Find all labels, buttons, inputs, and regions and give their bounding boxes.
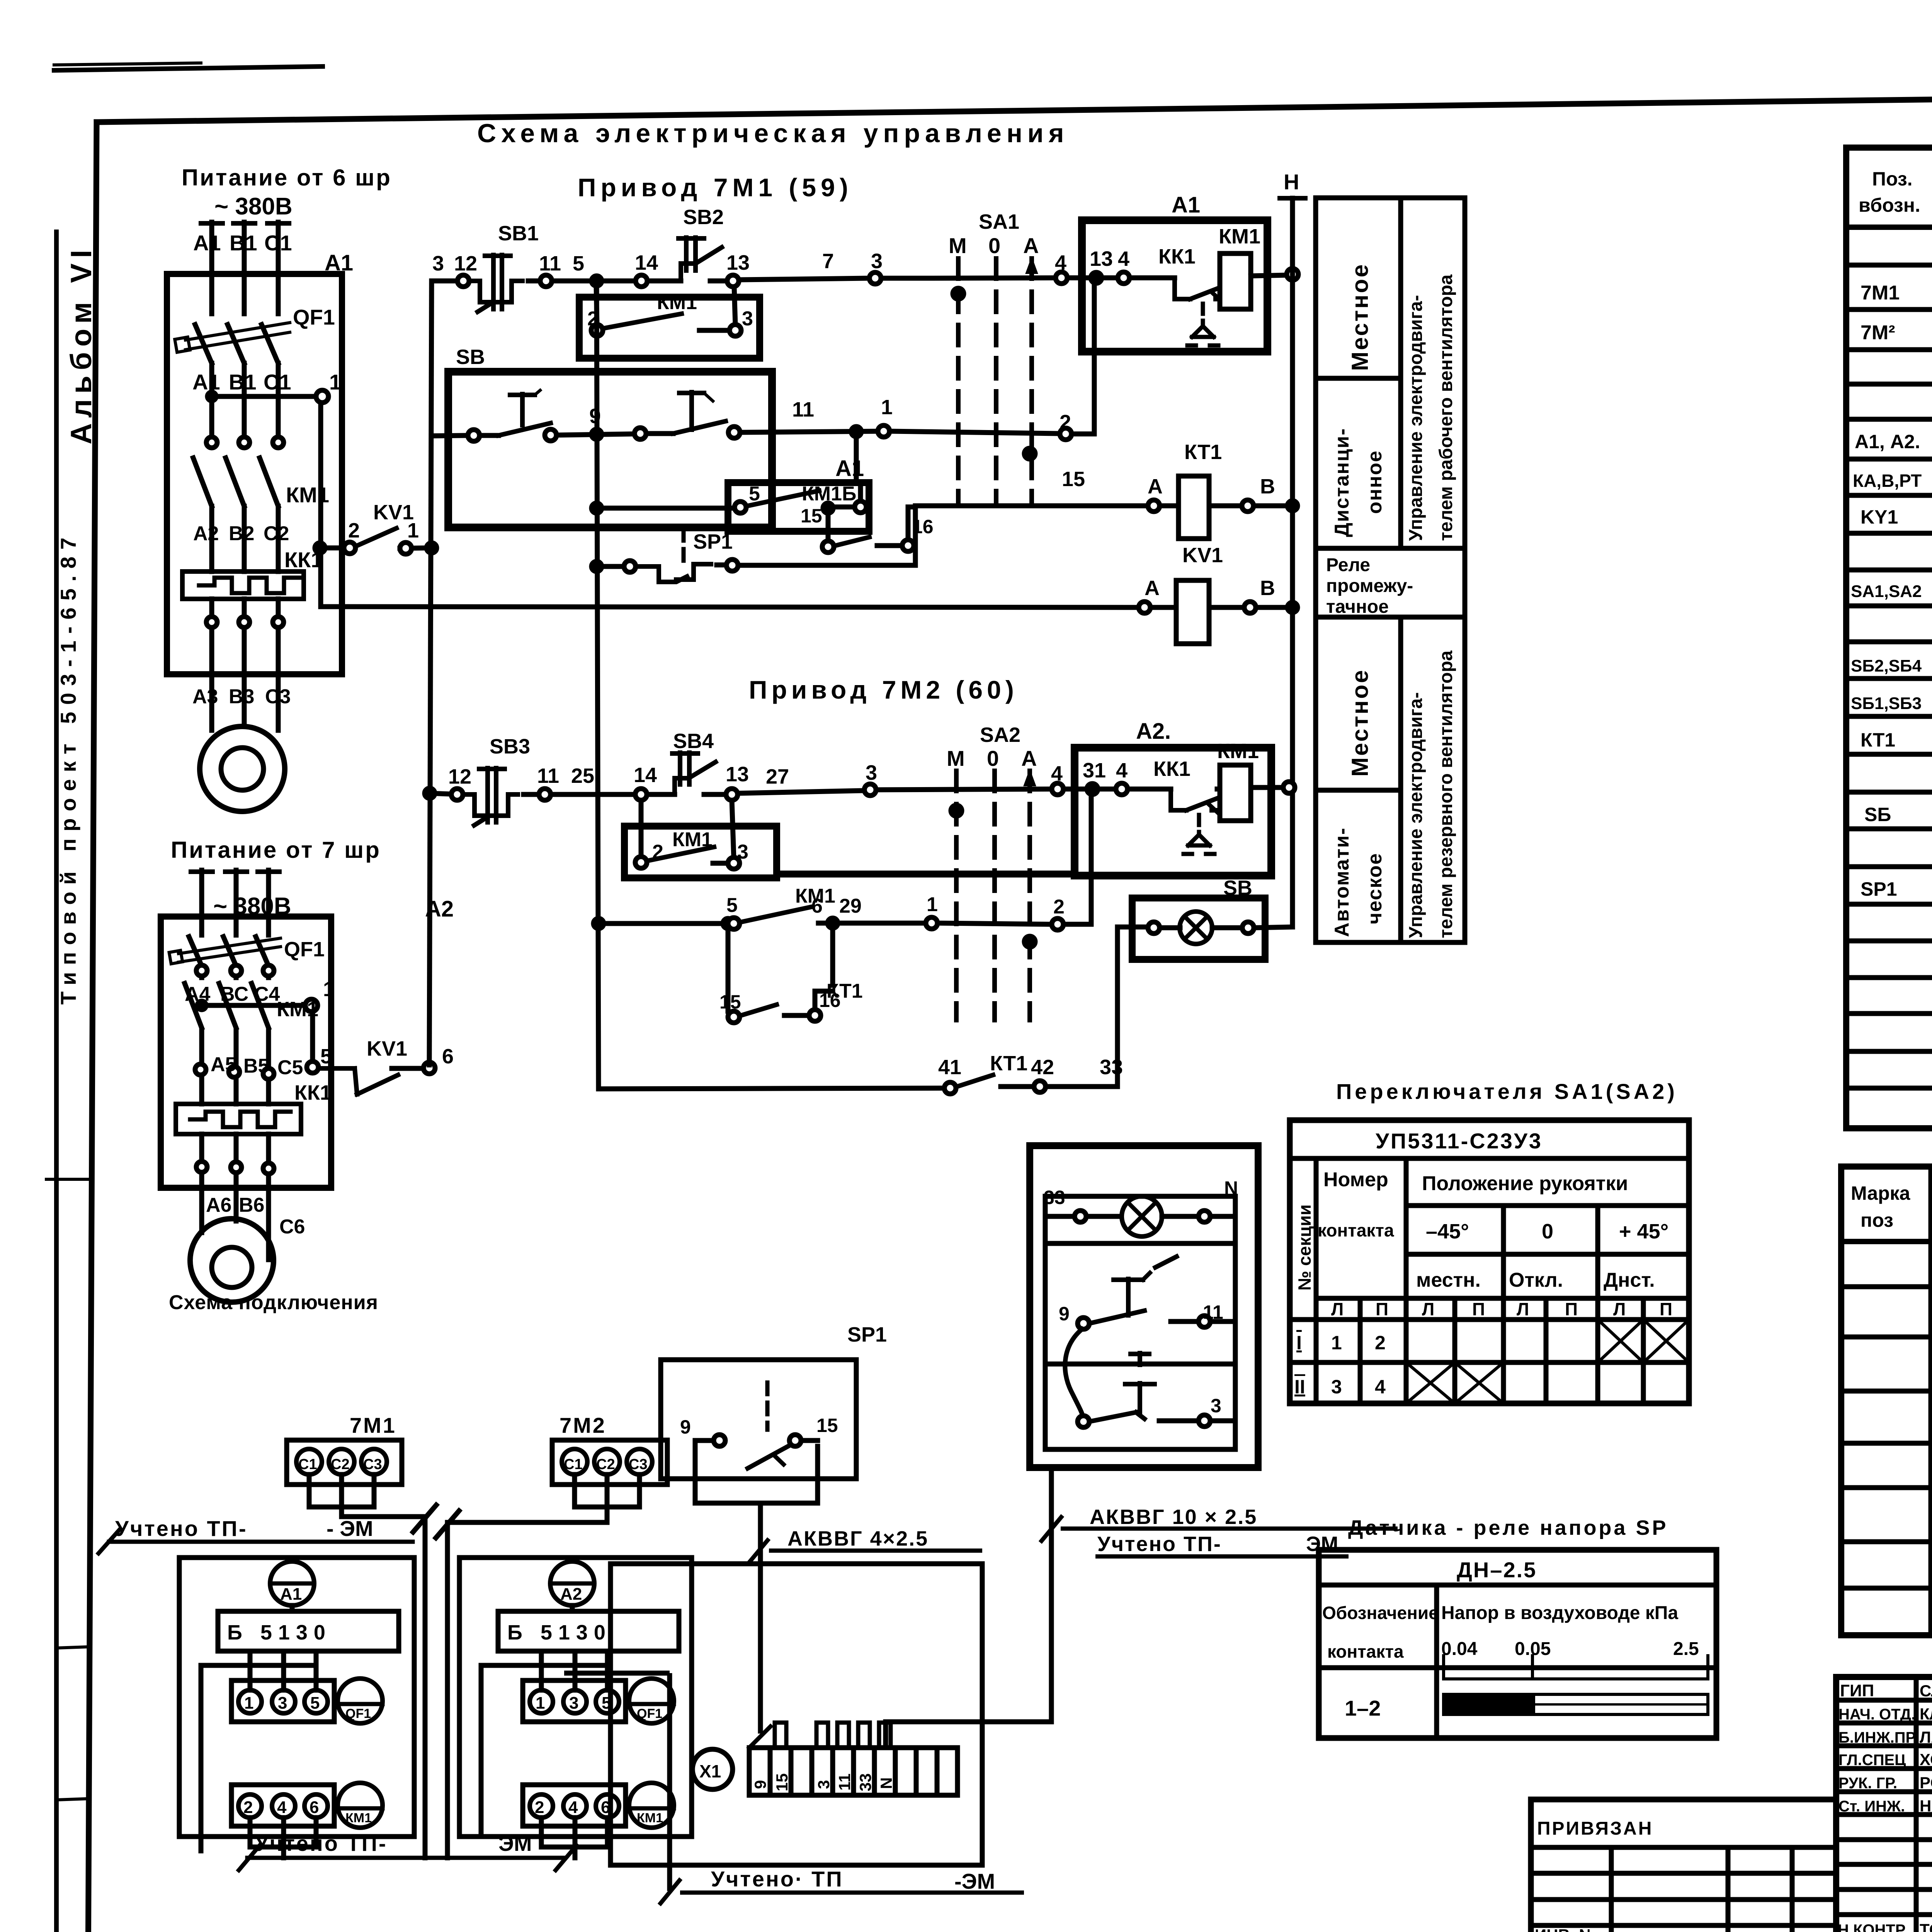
svg-text:4: 4 xyxy=(1051,762,1063,785)
svg-text:П: П xyxy=(1376,1299,1388,1319)
node 12 xyxy=(457,275,469,287)
node 1 drop wire A2 xyxy=(310,1012,315,1061)
svg-text:А2: А2 xyxy=(193,522,219,545)
svg-text:3: 3 xyxy=(871,250,883,273)
svg-text:КТ1: КТ1 xyxy=(827,980,863,1002)
border left xyxy=(88,122,97,1932)
svg-text:7М1: 7М1 xyxy=(1861,282,1900,304)
pushbutton SB3 xyxy=(463,794,493,816)
x1 enclosure xyxy=(611,1564,982,1865)
A2 boundary extension xyxy=(777,871,1075,878)
junction 15 riser left xyxy=(723,918,733,929)
svg-text:ХОМЯКОВ: ХОМЯКОВ xyxy=(1920,1750,1932,1769)
wires below 246-2 xyxy=(539,1818,544,1847)
svg-text:–45°: –45° xyxy=(1426,1220,1469,1243)
svg-text:телем резервного вентилятора: телем резервного вентилятора xyxy=(1436,650,1456,938)
svg-text:6: 6 xyxy=(442,1045,454,1068)
svg-text:3: 3 xyxy=(737,841,748,863)
svg-text:НАЧ. ОТД.: НАЧ. ОТД. xyxy=(1838,1706,1915,1723)
junction before node1 xyxy=(851,427,861,437)
KM1 circle 2 xyxy=(629,1783,674,1828)
svg-text:9: 9 xyxy=(751,1780,769,1789)
KM1 coil drive1 xyxy=(1220,253,1251,309)
KT1 latch contact drive1 xyxy=(822,541,834,553)
svg-text:SА1,SА2: SА1,SА2 xyxy=(1851,582,1922,601)
row 2 drive 2 from bus2 xyxy=(594,918,604,929)
svg-text:SВ1: SВ1 xyxy=(498,222,539,245)
svg-text:SВ: SВ xyxy=(1223,876,1252,900)
cable riser 2 xyxy=(445,1522,450,1858)
svg-text:7М1: 7М1 xyxy=(350,1413,396,1437)
svg-text:4: 4 xyxy=(1118,247,1129,270)
svg-text:SВ3: SВ3 xyxy=(490,735,530,758)
svg-text:КМ1Б: КМ1Б xyxy=(802,483,856,505)
svg-text:КК1: КК1 xyxy=(1158,245,1196,268)
SA2 dashed 0 line xyxy=(992,771,997,1020)
node 5 d2 xyxy=(728,918,740,929)
svg-text:С6: С6 xyxy=(279,1216,305,1238)
svg-text:телем рабочего вентилятора: телем рабочего вентилятора xyxy=(1436,274,1456,541)
svg-text:Питание от 7 шр: Питание от 7 шр xyxy=(171,837,381,863)
box A2 control xyxy=(1075,748,1271,876)
svg-text:13: 13 xyxy=(1090,247,1113,270)
KK1 test stem d2 xyxy=(1197,815,1201,835)
svg-text:4: 4 xyxy=(568,1798,578,1817)
node 3 aux d2 xyxy=(728,857,740,869)
phase mid circles A5 B5 C5 xyxy=(195,1064,206,1075)
svg-text:С3: С3 xyxy=(629,1456,648,1473)
svg-text:Х1: Х1 xyxy=(699,1761,721,1781)
sb conn inner box xyxy=(1045,1196,1235,1449)
fold mark 3 xyxy=(56,1799,88,1800)
svg-text:1: 1 xyxy=(407,519,419,542)
svg-text:Учтено ТП-: Учтено ТП- xyxy=(115,1516,248,1541)
wire to SA2 xyxy=(876,789,1052,790)
svg-text:3: 3 xyxy=(569,1694,578,1713)
svg-text:3: 3 xyxy=(278,1694,287,1713)
svg-text:контакта: контакта xyxy=(1327,1641,1404,1662)
terminals 246 box 2 xyxy=(523,1785,626,1826)
svg-text:Питание от 6 шр: Питание от 6 шр xyxy=(182,165,392,190)
svg-text:7: 7 xyxy=(822,250,834,273)
svg-text:12: 12 xyxy=(454,252,477,275)
KV1 contact row feeder1 xyxy=(315,543,325,553)
svg-text:QF1: QF1 xyxy=(637,1706,662,1721)
svg-text:Альбом VI: Альбом VI xyxy=(65,245,98,444)
svg-text:Л: Л xyxy=(1613,1299,1626,1319)
sb left link curve xyxy=(1065,1329,1083,1416)
svg-text:6: 6 xyxy=(811,895,823,917)
svg-text:А1: А1 xyxy=(325,250,353,276)
lamp HL xyxy=(1180,912,1212,944)
svg-text:QF1: QF1 xyxy=(345,1706,371,1721)
riser KM1B to row2 xyxy=(854,437,859,483)
svg-text:Ст. ИНЖ.: Ст. ИНЖ. xyxy=(1838,1798,1905,1815)
svg-text:KY1: KY1 xyxy=(1861,506,1898,528)
parts table frame xyxy=(1846,148,1932,1128)
svg-text:QF1: QF1 xyxy=(293,305,335,329)
svg-text:Дистанци-: Дистанци- xyxy=(1331,428,1353,537)
sb conn outer box xyxy=(1030,1146,1258,1468)
svg-text:М: М xyxy=(947,746,965,770)
SA table frame xyxy=(1290,1120,1689,1403)
svg-text:КМ1: КМ1 xyxy=(672,828,713,851)
KM1-2 contact terminals xyxy=(196,965,207,976)
node 12 d2 xyxy=(451,789,463,800)
svg-text:7М2: 7М2 xyxy=(560,1413,606,1437)
7M2 wires down xyxy=(572,1475,577,1507)
block B5130 no.1 xyxy=(179,1558,414,1858)
svg-text:В: В xyxy=(1260,577,1275,600)
svg-text:поз: поз xyxy=(1861,1209,1893,1231)
KM1 aux blade d2 xyxy=(647,847,714,861)
svg-text:ЛАЙКИН: ЛАЙКИН xyxy=(1920,1728,1932,1746)
svg-text:1: 1 xyxy=(244,1694,253,1713)
bus2 vertical xyxy=(597,281,599,1089)
svg-text:вбозн.: вбозн. xyxy=(1859,194,1920,216)
sp1 dashed stem xyxy=(765,1383,770,1430)
svg-text:0: 0 xyxy=(1542,1220,1553,1243)
riser node13 to node 3 aux xyxy=(734,287,735,325)
x1 circle xyxy=(692,1749,733,1789)
svg-text:А4: А4 xyxy=(185,983,211,1005)
svg-text:КТ1: КТ1 xyxy=(990,1052,1027,1075)
node 3 aux d1 xyxy=(730,325,741,336)
svg-text:тачное: тачное xyxy=(1326,597,1389,617)
svg-text:А2.: А2. xyxy=(1136,719,1171,744)
svg-text:С3: С3 xyxy=(265,685,291,708)
svg-text:Местное: Местное xyxy=(1347,668,1373,777)
pushbutton SB2 xyxy=(647,279,681,284)
SA1 A junction dot xyxy=(1024,448,1035,459)
x1 strip xyxy=(749,1748,957,1795)
b5130-2 outer box xyxy=(459,1558,692,1837)
KM1 2-3 aux box drive1 xyxy=(579,297,760,358)
svg-text:Л: Л xyxy=(1331,1299,1344,1319)
label column frame xyxy=(1316,198,1465,942)
terminals 135 box 2 xyxy=(523,1680,626,1722)
svg-text:Н.КОНТР.: Н.КОНТР. xyxy=(1838,1922,1908,1932)
KK1 contact drive1 xyxy=(1175,278,1190,299)
node 13 d2 xyxy=(726,789,738,800)
svg-text:А5: А5 xyxy=(211,1053,236,1076)
wires above 135-2 xyxy=(539,1651,544,1690)
junction 29 xyxy=(828,918,838,928)
DN table frame xyxy=(1319,1550,1716,1738)
title block frame xyxy=(1836,1677,1932,1932)
SA2 A arrowhead xyxy=(1024,771,1035,786)
pushbutton SB1 xyxy=(469,281,498,302)
svg-text:1: 1 xyxy=(1331,1332,1342,1354)
svg-text:Н: Н xyxy=(1284,170,1299,194)
SB start button contact xyxy=(634,428,646,439)
DN black bar xyxy=(1444,1694,1535,1714)
KK1 contact drive2 xyxy=(1171,789,1186,810)
riser 33 to lamp xyxy=(1115,927,1120,1087)
svg-text:SБ1,SБ3: SБ1,SБ3 xyxy=(1851,694,1922,713)
svg-text:Переключателя SА1(SА2): Переключателя SА1(SА2) xyxy=(1336,1079,1678,1104)
KK1 bottom terminals xyxy=(206,617,217,628)
main row drive 1 wire xyxy=(432,279,457,284)
wire to SA1 xyxy=(881,276,929,281)
svg-text:С2: С2 xyxy=(264,522,289,545)
KT1 latch riser right xyxy=(906,507,911,540)
X1 terminal strip xyxy=(611,1564,982,1865)
svg-text:А3: А3 xyxy=(192,685,218,708)
svg-text:КТ1: КТ1 xyxy=(1861,729,1895,751)
svg-text:П: П xyxy=(1660,1299,1672,1319)
svg-text:N: N xyxy=(1224,1177,1238,1199)
svg-text:А1: А1 xyxy=(192,370,220,394)
KT1 latch riser left xyxy=(826,508,831,541)
svg-text:М: М xyxy=(949,233,967,258)
svg-text:А: А xyxy=(1023,233,1039,258)
svg-text:Управление электродвига-: Управление электродвига- xyxy=(1406,295,1426,541)
svg-text:Откл.: Откл. xyxy=(1509,1269,1563,1291)
motor M2 xyxy=(190,1219,274,1302)
svg-text:Б 5130: Б 5130 xyxy=(227,1621,332,1644)
exit node to N bus d2 xyxy=(1283,782,1295,793)
svg-text:N: N xyxy=(877,1777,895,1789)
svg-text:SБ2,SБ4: SБ2,SБ4 xyxy=(1851,656,1922,675)
cable riser 1 xyxy=(423,1517,428,1858)
svg-text:П: П xyxy=(1565,1299,1578,1319)
phase wire A4 xyxy=(199,870,204,935)
svg-text:А2: А2 xyxy=(560,1585,582,1604)
svg-text:3: 3 xyxy=(866,761,877,784)
svg-text:0.05: 0.05 xyxy=(1515,1639,1551,1659)
svg-text:SР1: SР1 xyxy=(1861,878,1897,900)
svg-text:4: 4 xyxy=(277,1798,287,1817)
svg-text:11: 11 xyxy=(1203,1301,1223,1323)
svg-text:С1: С1 xyxy=(264,231,292,255)
phase wire B4 xyxy=(234,870,239,935)
svg-text:Привод 7М1 (59): Привод 7М1 (59) xyxy=(578,173,853,202)
b5130-2 header xyxy=(498,1611,679,1651)
lamp to N bus xyxy=(1254,927,1293,928)
svg-text:Местное: Местное xyxy=(1347,263,1373,371)
SP1 box connection diagram xyxy=(661,1360,856,1731)
svg-text:SР1: SР1 xyxy=(847,1323,887,1346)
svg-text:А1: А1 xyxy=(193,231,221,255)
svg-text:АКВВГ 10 × 2.5: АКВВГ 10 × 2.5 xyxy=(1090,1505,1257,1529)
breaker QF1 bar xyxy=(185,323,290,340)
sb lamp row xyxy=(1075,1211,1086,1222)
phase segments below KM1 xyxy=(209,506,214,571)
bus 1 left vertical xyxy=(429,281,432,1065)
SA1 dashed 0 line xyxy=(994,259,998,502)
svg-text:Привод 7М2 (60): Привод 7М2 (60) xyxy=(749,675,1018,704)
svg-text:КК1: КК1 xyxy=(294,1081,332,1104)
7M1 wires down xyxy=(307,1475,312,1507)
riser node14 to node 2 aux d2 xyxy=(639,800,644,857)
wire 7-3 xyxy=(739,278,869,280)
svg-text:16: 16 xyxy=(912,516,934,537)
svg-text:SА1: SА1 xyxy=(979,210,1019,233)
sheet top-left edge line 2 xyxy=(54,63,201,65)
svg-text:ГЛ.СПЕЦ: ГЛ.СПЕЦ xyxy=(1838,1752,1906,1769)
SA1 A arrowhead xyxy=(1026,259,1037,273)
sb contact row 3 xyxy=(1078,1416,1089,1427)
DN white bar xyxy=(1444,1694,1708,1714)
svg-text:С3: С3 xyxy=(363,1456,382,1473)
svg-text:КМ1: КМ1 xyxy=(1219,225,1260,248)
svg-text:-ЭМ: -ЭМ xyxy=(954,1869,995,1893)
b5130-1 outer box xyxy=(179,1558,414,1837)
svg-text:SВ2: SВ2 xyxy=(683,206,724,229)
svg-text:QF1: QF1 xyxy=(284,938,325,961)
svg-text:А1: А1 xyxy=(280,1585,302,1604)
node 1 row2 xyxy=(878,425,889,437)
svg-text:Л: Л xyxy=(1422,1299,1434,1319)
svg-text:А1: А1 xyxy=(1172,192,1200,218)
junction bus2 top xyxy=(592,276,602,286)
device circle A2 xyxy=(550,1561,594,1605)
bus2 junction row2 xyxy=(592,429,602,439)
border top xyxy=(97,90,1932,122)
X marks row II -45 xyxy=(1406,1362,1455,1403)
svg-text:5: 5 xyxy=(749,483,760,505)
svg-text:Л: Л xyxy=(1517,1299,1529,1319)
sp1 internal loop xyxy=(693,1440,698,1503)
svg-text:местн.: местн. xyxy=(1416,1269,1481,1291)
svg-text:С1: С1 xyxy=(298,1456,317,1473)
phase wires to motor xyxy=(209,628,214,730)
svg-text:27: 27 xyxy=(766,765,789,788)
node 13 xyxy=(727,275,739,287)
pushbutton SB4 xyxy=(647,792,675,797)
svg-text:4: 4 xyxy=(1375,1376,1386,1398)
svg-text:9: 9 xyxy=(1059,1303,1070,1325)
motor M1 xyxy=(200,726,285,811)
SA1 dashed A line xyxy=(1029,259,1034,502)
svg-text:1: 1 xyxy=(881,396,893,419)
svg-text:3: 3 xyxy=(742,308,753,330)
svg-text:Типовой проект 503-1-65.87: Типовой проект 503-1-65.87 xyxy=(56,531,80,1005)
svg-text:В1: В1 xyxy=(230,231,257,255)
svg-text:Б 5130: Б 5130 xyxy=(507,1621,612,1644)
long wire to KV1 coil xyxy=(321,607,1139,607)
phase wire A1 xyxy=(209,222,214,314)
svg-text:С2: С2 xyxy=(596,1456,615,1473)
svg-text:SВ4: SВ4 xyxy=(673,730,714,753)
svg-text:С2: С2 xyxy=(331,1456,350,1473)
svg-text:ПРИВЯЗАН: ПРИВЯЗАН xyxy=(1537,1818,1653,1839)
svg-text:Поз.: Поз. xyxy=(1872,168,1913,190)
svg-text:~ 380В: ~ 380В xyxy=(214,193,293,220)
wire 11-25 xyxy=(524,792,539,797)
svg-text:4: 4 xyxy=(1055,251,1066,274)
node 1 d2 xyxy=(926,917,937,929)
svg-text:33: 33 xyxy=(1100,1056,1123,1079)
privyazan frame xyxy=(1531,1799,1836,1932)
svg-text:КК1: КК1 xyxy=(1153,757,1190,781)
b5130-1 header xyxy=(218,1611,399,1651)
terminal box 7M1 label xyxy=(287,1440,402,1485)
svg-text:С1: С1 xyxy=(264,370,291,394)
KM1 contact terminals xyxy=(206,437,217,448)
signature columns xyxy=(1914,1677,1919,1932)
svg-text:5: 5 xyxy=(310,1694,320,1713)
fold mark 2 xyxy=(56,1647,88,1648)
svg-text:П: П xyxy=(1472,1299,1485,1319)
node 31 in A2 box xyxy=(1087,784,1098,794)
svg-text:6: 6 xyxy=(310,1798,319,1817)
KT1 coil xyxy=(1148,500,1160,512)
sb divider 1 xyxy=(1045,1241,1235,1246)
svg-text:В: В xyxy=(1260,475,1275,498)
svg-text:15: 15 xyxy=(816,1415,838,1436)
svg-text:13: 13 xyxy=(726,251,750,274)
svg-text:контакта: контакта xyxy=(1318,1220,1394,1240)
sp1 contact xyxy=(714,1435,725,1446)
svg-text:КМ1: КМ1 xyxy=(286,483,329,507)
phase wires to motor M2 xyxy=(199,1172,204,1233)
svg-text:В1: В1 xyxy=(229,370,257,394)
svg-text:- ЭМ: - ЭМ xyxy=(327,1516,373,1541)
svg-text:С5: С5 xyxy=(277,1056,303,1079)
uchteno line top xyxy=(109,1540,413,1544)
node 13 in A1 box xyxy=(1091,272,1102,283)
svg-text:2: 2 xyxy=(348,519,360,542)
svg-text:ВС: ВС xyxy=(220,983,248,1005)
svg-text:НАЗАРОВА: НАЗАРОВА xyxy=(1920,1797,1932,1815)
bus2 bottom corner to lamp row xyxy=(599,1088,944,1089)
SA1 M junction dot xyxy=(953,288,964,299)
x1 stubs above xyxy=(775,1723,786,1748)
node 2 aux d2 xyxy=(635,857,647,868)
svg-text:С4: С4 xyxy=(254,983,280,1005)
svg-text:Учтено· ТП: Учтено· ТП xyxy=(711,1867,844,1891)
SB box connection diagram xyxy=(886,1146,1258,1748)
svg-text:KV1: KV1 xyxy=(1182,544,1223,567)
signature rows xyxy=(1836,1698,1932,1703)
KV1 contact of feeder A2 xyxy=(307,1061,318,1073)
svg-text:А: А xyxy=(1021,746,1037,770)
svg-text:Схема электрическая управле: Схема электрическая управления xyxy=(477,119,1069,148)
KM1 coil drive2 xyxy=(1220,765,1251,821)
svg-text:А6: А6 xyxy=(206,1194,231,1216)
svg-text:7М²: 7М² xyxy=(1861,321,1895,344)
svg-text:11: 11 xyxy=(539,252,561,275)
phase segments below QF1 xyxy=(209,363,214,437)
phase segments below KM1-2 xyxy=(199,1030,204,1104)
svg-text:ГИП: ГИП xyxy=(1840,1681,1874,1700)
KM1 aux blade d1 xyxy=(603,314,682,328)
riser node13 to node 3 aux d2 xyxy=(732,800,734,857)
KM1B aux box xyxy=(728,483,869,531)
materials table frame xyxy=(1841,1167,1932,1635)
svg-text:15: 15 xyxy=(1062,468,1085,491)
svg-text:42: 42 xyxy=(1031,1056,1054,1079)
node 14 xyxy=(636,275,647,287)
svg-text:4: 4 xyxy=(1116,759,1128,782)
svg-text:КМ1: КМ1 xyxy=(1217,740,1259,763)
breaker QF1 poles xyxy=(195,325,212,363)
QF1 circle xyxy=(338,1679,383,1723)
svg-text:Обозначение: Обозначение xyxy=(1322,1603,1439,1623)
svg-text:3: 3 xyxy=(432,252,444,275)
svg-text:15: 15 xyxy=(801,505,822,527)
KK1-2 bottom terminals xyxy=(196,1162,207,1172)
svg-text:РОДИОНОВ: РОДИОНОВ xyxy=(1920,1774,1932,1792)
svg-text:Учтено ТП-: Учтено ТП- xyxy=(1097,1532,1222,1556)
svg-text:31: 31 xyxy=(1083,759,1106,782)
box A1 control xyxy=(1082,220,1267,352)
node 14 d2 xyxy=(635,789,647,800)
riser bus2 to node 2 aux xyxy=(596,287,597,325)
node 1 wire A2 xyxy=(202,1003,306,1008)
